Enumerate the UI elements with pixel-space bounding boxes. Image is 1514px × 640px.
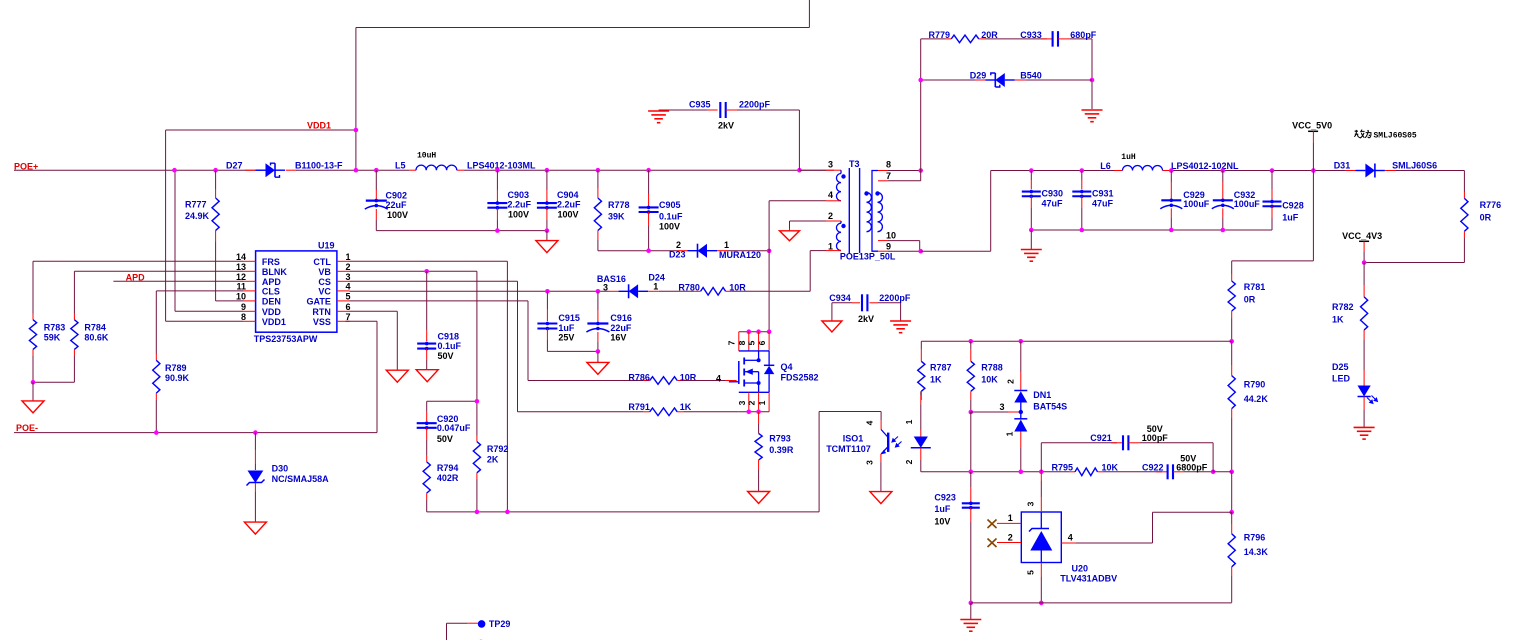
wire CTL bottom rail to ISO1 — [427, 511, 819, 513]
wire ISO1 collector loop — [818, 412, 820, 512]
svg-text:BAS16: BAS16 — [597, 274, 626, 284]
capacitor C928 1uF — [1271, 171, 1273, 190]
resistor R780 10R — [695, 290, 701, 292]
wire R783/R784 bottom join — [33, 381, 74, 383]
svg-text:TP29: TP29 — [489, 619, 511, 629]
node R781 bottom junction — [1229, 339, 1234, 344]
wire VDD vertical U19 pin9 to POE+ — [174, 170, 176, 311]
svg-text:0.39R: 0.39R — [769, 445, 794, 455]
svg-text:9: 9 — [886, 241, 891, 251]
test point TP29 — [447, 622, 468, 624]
svg-text:0R: 0R — [1244, 295, 1256, 305]
wire POE+ rail right of L5 — [464, 169, 834, 171]
svg-text:POE13P_50L: POE13P_50L — [840, 251, 896, 261]
wire VDD1 to U19 pin8 vertical — [165, 130, 167, 321]
svg-text:0.1uF: 0.1uF — [659, 212, 683, 222]
svg-text:FRS: FRS — [262, 257, 280, 267]
svg-text:D23: D23 — [669, 250, 686, 260]
wire secondary rail to output — [921, 250, 991, 252]
svg-text:1uF: 1uF — [558, 323, 575, 333]
svg-text:90.9K: 90.9K — [165, 373, 190, 383]
svg-text:2200pF: 2200pF — [739, 100, 771, 110]
diode DN1 BAT54S — [1020, 341, 1022, 372]
node pin9/pin10 junction — [918, 249, 923, 254]
svg-text:R781: R781 — [1244, 282, 1266, 292]
resistor R793 0.39R — [758, 412, 760, 424]
svg-text:R792: R792 — [487, 444, 509, 454]
U19 pin 13 BLNK — [243, 270, 256, 272]
wire R776 bottom to VCC_4V3 — [1364, 262, 1464, 264]
node U20 pin5 junction — [1039, 601, 1044, 606]
T3 secondary winding left — [867, 193, 872, 232]
node C928 junction — [1270, 168, 1275, 173]
wire C935 to POE+ rail — [798, 110, 800, 170]
svg-text:ISO1: ISO1 — [843, 433, 864, 443]
svg-text:1uF: 1uF — [1282, 212, 1299, 222]
svg-text:22uF: 22uF — [386, 200, 408, 210]
svg-text:2: 2 — [1008, 533, 1013, 543]
svg-text:C923: C923 — [934, 493, 956, 503]
ground under R793 — [748, 492, 770, 504]
svg-text:BLNK: BLNK — [262, 267, 287, 277]
svg-text:R793: R793 — [769, 433, 791, 443]
wire column R790-R796 — [1231, 472, 1233, 512]
svg-text:22uF: 22uF — [610, 323, 632, 333]
svg-text:SMLJ60S05: SMLJ60S05 — [1374, 131, 1417, 140]
ground under C904 — [546, 231, 548, 241]
svg-text:50V: 50V — [1180, 453, 1196, 463]
capacitor C921 100pF 50V — [1040, 443, 1042, 472]
svg-text:DEN: DEN — [262, 297, 281, 307]
svg-text:R776: R776 — [1480, 200, 1502, 210]
svg-text:R782: R782 — [1332, 302, 1354, 312]
wire U20 pin4 to divider — [1152, 512, 1154, 543]
svg-text:6800pF: 6800pF — [1176, 462, 1208, 472]
U19 pin 14 FRS — [243, 260, 256, 262]
node C905 junction — [646, 168, 651, 173]
svg-text:100V: 100V — [659, 221, 680, 231]
svg-text:10K: 10K — [981, 375, 998, 385]
node VDD1 junction — [354, 128, 359, 133]
svg-text:24.9K: 24.9K — [185, 211, 210, 221]
inductor L6 1uH LPS4012-102NL — [1114, 170, 1123, 172]
diode D27 B1100-13-F — [245, 169, 255, 171]
node Q4 source junctions — [747, 410, 752, 415]
node POE- D30 junction — [253, 430, 258, 435]
node VDD1/rail junction — [354, 168, 359, 173]
capacitor C932 100uF — [1222, 171, 1224, 183]
svg-text:10uH: 10uH — [417, 152, 436, 161]
svg-text:10K: 10K — [1102, 462, 1119, 472]
wire C915/C916 bottom — [547, 350, 598, 352]
svg-text:1K: 1K — [930, 375, 942, 385]
svg-text:SMLJ60S6: SMLJ60S6 — [1392, 160, 1437, 170]
svg-text:14.3K: 14.3K — [1244, 547, 1269, 557]
wire VCC_5V0 down to R781 row — [1312, 171, 1314, 261]
capacitor C935 2200pF 2kV — [659, 109, 716, 111]
wire C933 right down — [1091, 39, 1093, 109]
svg-text:R780: R780 — [678, 283, 700, 293]
wire R787 column top — [920, 341, 922, 349]
wire GATE pin5 — [350, 300, 529, 302]
wire VB pin2 — [350, 270, 477, 272]
capacitor C915 1uF 25V — [546, 291, 548, 309]
svg-text:D30: D30 — [272, 464, 289, 474]
wire D27 cathode to L5 — [296, 169, 409, 171]
svg-text:4: 4 — [1068, 533, 1073, 543]
svg-text:5: 5 — [346, 292, 351, 302]
svg-text:C916: C916 — [610, 313, 632, 323]
wire VDD pin9 — [175, 310, 243, 312]
svg-text:RTN: RTN — [312, 307, 331, 317]
svg-text:C931: C931 — [1092, 189, 1114, 199]
svg-text:U19: U19 — [318, 240, 335, 250]
wire GATE to R786 — [528, 380, 644, 382]
svg-text:3: 3 — [346, 272, 351, 282]
svg-text:U20: U20 — [1072, 564, 1089, 574]
svg-text:D27: D27 — [226, 161, 243, 171]
wire D24 to R780 — [659, 290, 695, 292]
svg-text:6: 6 — [346, 302, 351, 312]
ground under ISO1 — [870, 492, 892, 504]
wire CS pin3 — [350, 280, 518, 282]
node R778 junction — [596, 168, 601, 173]
U19 pin 1 CTL — [337, 260, 350, 262]
svg-text:2.2uF: 2.2uF — [557, 200, 581, 210]
node D29/C933 junction — [1090, 78, 1095, 83]
svg-text:C921: C921 — [1090, 433, 1112, 443]
node POE+ / VDD junction — [172, 168, 177, 173]
svg-text:C922: C922 — [1142, 462, 1164, 472]
U20 pin 2 no-connect — [997, 542, 1021, 544]
ground RTN — [386, 370, 408, 382]
T3 secondary winding right — [878, 193, 883, 232]
svg-text:59K: 59K — [44, 333, 61, 343]
node DN1 top junction — [1019, 339, 1024, 344]
svg-text:R795: R795 — [1052, 462, 1074, 472]
svg-text:R779: R779 — [929, 30, 951, 40]
svg-text:39K: 39K — [608, 212, 625, 222]
wire TP29 drop — [446, 623, 448, 640]
svg-text:C902: C902 — [386, 191, 408, 201]
svg-text:C905: C905 — [659, 200, 681, 210]
resistor R795 10K — [1069, 471, 1075, 473]
node C930 junction — [1029, 168, 1034, 173]
svg-text:4: 4 — [865, 420, 875, 425]
wire VB vertical — [476, 271, 478, 435]
svg-text:1uF: 1uF — [934, 504, 951, 514]
svg-text:2kV: 2kV — [858, 314, 874, 324]
resistor R794 402R — [426, 440, 428, 455]
node C918 tap junction — [424, 269, 429, 274]
svg-text:1: 1 — [828, 241, 833, 251]
node C929 junction — [1169, 168, 1174, 173]
resistor R781 0R — [1231, 261, 1233, 274]
svg-text:C930: C930 — [1042, 189, 1064, 199]
svg-text:2kV: 2kV — [718, 121, 734, 131]
svg-text:R784: R784 — [84, 323, 106, 333]
ISO1 light arrows — [892, 437, 902, 448]
U20 pin 5 bottom — [1040, 563, 1042, 578]
svg-text:D31: D31 — [1334, 160, 1351, 170]
svg-text:1uH: 1uH — [1121, 153, 1136, 162]
diode D31 SMLJ60S6 — [1345, 170, 1355, 172]
capacitor C934 2200pF 2kV — [832, 302, 852, 304]
T3 pin 2 — [826, 220, 841, 222]
svg-text:TPS23753APW: TPS23753APW — [254, 334, 318, 344]
wire FRS pin14 to R783 — [33, 260, 243, 262]
svg-text:B1100-13-F: B1100-13-F — [295, 161, 343, 171]
resistor R788 10K — [970, 341, 972, 349]
wire LED cathode rail — [921, 471, 1069, 473]
svg-text:5: 5 — [747, 340, 757, 345]
wire bottom return rail — [971, 602, 1232, 604]
wire DEN pin10 — [216, 300, 243, 302]
svg-text:VDD1: VDD1 — [262, 317, 286, 327]
svg-text:VB: VB — [318, 267, 331, 277]
svg-text:14: 14 — [236, 252, 246, 262]
node R792 top junction — [475, 399, 480, 404]
node U20 fb junction — [1229, 510, 1234, 515]
capacitor C923 1uF 10V — [970, 472, 972, 487]
inductor L5 10uH LPS4012-103ML — [409, 169, 416, 171]
svg-text:7: 7 — [727, 340, 737, 345]
svg-text:7: 7 — [886, 171, 891, 181]
svg-text:CS: CS — [318, 277, 331, 287]
U19 pin 12 APD — [243, 280, 256, 282]
svg-text:R783: R783 — [44, 323, 66, 333]
node Q4 drain junctions — [747, 329, 752, 334]
svg-text:LPS4012-102NL: LPS4012-102NL — [1171, 161, 1239, 171]
wire POE+ rail left — [14, 169, 263, 171]
svg-text:2200pF: 2200pF — [879, 293, 911, 303]
wire C934 right down — [900, 303, 902, 321]
svg-text:TLV431ADBV: TLV431ADBV — [1060, 573, 1117, 583]
svg-text:2: 2 — [1006, 379, 1016, 384]
capacitor C930 47uF — [1030, 171, 1032, 181]
wire CS to R791 — [518, 411, 644, 413]
svg-text:C935: C935 — [689, 100, 711, 110]
node C921 right junction — [1211, 470, 1216, 475]
T3 pin 9 — [878, 250, 888, 252]
U19 pin 8 VDD1 — [243, 320, 256, 322]
ISO1 LED branch — [920, 395, 922, 404]
svg-text:100pF: 100pF — [1142, 433, 1169, 443]
svg-text:2: 2 — [904, 459, 914, 464]
ground under C916 — [597, 351, 599, 362]
node C931 junction — [1080, 168, 1085, 173]
diode D23 MURA120 — [677, 250, 688, 252]
ground triangle C934 left — [822, 321, 842, 332]
svg-text:3: 3 — [1026, 501, 1036, 506]
capacitor C933 680pF — [985, 38, 1047, 40]
svg-text:7: 7 — [346, 312, 351, 322]
svg-text:BAT54S: BAT54S — [1033, 402, 1067, 412]
svg-text:B540: B540 — [1020, 70, 1042, 80]
svg-text:C904: C904 — [557, 190, 579, 200]
svg-text:3: 3 — [1000, 402, 1005, 412]
wire VC pin4 line — [350, 290, 609, 292]
text note SMLJ60S05 — [0, 0, 1, 1]
svg-text:100V: 100V — [508, 210, 529, 220]
svg-text:25V: 25V — [558, 333, 574, 343]
capacitor C922 6800pF 50V — [1104, 471, 1163, 473]
wire BLNK pin13 to R784 — [74, 270, 243, 272]
ground under D25 — [1354, 426, 1375, 428]
T3 pin 10 — [878, 240, 888, 242]
wire POE- rail — [14, 432, 377, 434]
ground under C930 — [1030, 230, 1032, 250]
svg-text:DN1: DN1 — [1033, 390, 1051, 400]
node C904 junction — [545, 168, 550, 173]
svg-text:50V: 50V — [1147, 424, 1163, 434]
wire top exit vertical — [808, 0, 810, 28]
wire APD pin12 — [113, 280, 243, 282]
node R790 bottom junction — [1229, 470, 1234, 475]
wire ISO1 emitter to ground — [880, 462, 882, 492]
node D29 left junction — [918, 78, 923, 83]
resistor R776 0R — [1463, 192, 1465, 198]
svg-text:100uF: 100uF — [1234, 199, 1261, 209]
svg-text:R789: R789 — [165, 363, 187, 373]
node pin8 junction — [918, 168, 923, 173]
Q4 source rail — [739, 411, 769, 413]
wire feedback top rail — [921, 340, 1231, 342]
T3 pin 3 — [799, 169, 826, 171]
svg-text:MURA120: MURA120 — [719, 250, 761, 260]
svg-text:R788: R788 — [981, 363, 1003, 373]
diode D29 B540 — [921, 79, 975, 81]
svg-text:1: 1 — [653, 282, 658, 292]
node R792 bottom junction — [475, 510, 480, 515]
Q4 drain rail — [739, 331, 769, 333]
T3 core — [848, 168, 850, 253]
svg-text:2: 2 — [747, 400, 757, 405]
node C935 branch junction — [797, 168, 802, 173]
node R788 column junction — [969, 470, 974, 475]
wire to R790 column — [1213, 471, 1232, 473]
svg-text:L6: L6 — [1100, 161, 1111, 171]
U19 pin 10 DEN — [243, 300, 256, 302]
svg-text:C903: C903 — [508, 190, 530, 200]
wire VDD1 top loop horizontal — [356, 27, 810, 29]
T3 secondary bracket — [872, 171, 878, 252]
svg-text:R777: R777 — [185, 200, 207, 210]
wire rail after L6 — [1170, 170, 1345, 172]
svg-text:44.2K: 44.2K — [1244, 394, 1269, 404]
svg-text:1: 1 — [1008, 513, 1013, 523]
wire R786 to Q4 gate — [683, 380, 725, 382]
wire VDD1 pin8 — [166, 320, 243, 322]
capacitor C918 0.1uF 50V — [426, 271, 428, 330]
node R788 top junction — [969, 339, 974, 344]
wire D31 to R776 — [1395, 170, 1464, 172]
node CTL vertical junction — [505, 510, 510, 515]
svg-text:CLS: CLS — [262, 287, 280, 297]
capacitor C929 100uF — [1170, 171, 1172, 183]
wire pin2 to ground — [789, 221, 791, 228]
svg-text:0R: 0R — [1480, 213, 1492, 223]
svg-text:680pF: 680pF — [1070, 30, 1097, 40]
svg-text:POE-: POE- — [16, 423, 38, 433]
svg-text:0.047uF: 0.047uF — [437, 423, 471, 433]
node C915 junction — [545, 289, 550, 294]
T3 pin 1 — [826, 250, 841, 252]
svg-text:2: 2 — [828, 211, 833, 221]
svg-text:100uF: 100uF — [1183, 199, 1210, 209]
node bottom rail junctions — [1080, 228, 1085, 233]
node C916 junction — [596, 289, 601, 294]
svg-text:VDD: VDD — [262, 307, 282, 317]
svg-text:LPS4012-103ML: LPS4012-103ML — [467, 160, 536, 170]
svg-text:10: 10 — [236, 292, 246, 302]
svg-text:1: 1 — [1005, 431, 1015, 436]
svg-text:1K: 1K — [680, 402, 692, 412]
resistor R786 10R — [644, 380, 650, 382]
IC U19 TPS23753APW body — [256, 251, 337, 332]
diode D24 BAS16 — [609, 290, 619, 292]
svg-text:3: 3 — [828, 159, 833, 169]
text note Chinese gai-wei glyphs — [1354, 130, 1371, 138]
svg-text:3: 3 — [865, 460, 875, 465]
node VCC_5V0 junction — [1311, 168, 1316, 173]
node C903 junction — [495, 168, 500, 173]
svg-text:12: 12 — [236, 272, 246, 282]
svg-text:6: 6 — [757, 340, 767, 345]
node C932 junction — [1221, 168, 1226, 173]
svg-text:C928: C928 — [1282, 200, 1304, 210]
wire VDD1 horizontal — [166, 129, 356, 131]
svg-text:NC/SMAJ58A: NC/SMAJ58A — [272, 474, 330, 484]
svg-text:100V: 100V — [387, 210, 408, 220]
node C904 bottom junction — [545, 228, 550, 233]
capacitor C903 2.2uF 100V — [496, 170, 498, 190]
wire R788 down to R795 node — [970, 412, 972, 472]
svg-text:VSS: VSS — [313, 317, 331, 327]
svg-text:VDD1: VDD1 — [307, 121, 331, 131]
svg-text:20R: 20R — [981, 30, 998, 40]
capacitor C920 0.047uF 50V — [426, 401, 428, 411]
svg-text:R791: R791 — [628, 402, 650, 412]
node R783 bottom junction — [31, 380, 36, 385]
Q4 drain pin stubs 7 8 5 6 — [738, 332, 740, 351]
node C905 bottom junction — [646, 248, 651, 253]
svg-text:10: 10 — [886, 230, 896, 240]
resistor R787 1K — [920, 349, 922, 361]
ground bars C934 right — [890, 320, 911, 322]
svg-text:80.6K: 80.6K — [84, 333, 109, 343]
svg-text:16V: 16V — [610, 333, 626, 343]
wire C934 left down — [831, 303, 833, 321]
node D23/pin4 junction — [767, 249, 772, 254]
svg-text:1: 1 — [757, 400, 767, 405]
resistor R779 20R — [921, 38, 945, 40]
wire DN1 pin 3 link — [971, 411, 1008, 413]
ISO1 phototransistor — [887, 433, 889, 452]
T3 pin 8 — [878, 170, 888, 172]
wire CTL pin1 — [350, 260, 508, 262]
svg-text:FDS2582: FDS2582 — [781, 372, 819, 382]
svg-text:CTL: CTL — [313, 257, 331, 267]
svg-text:VCC_5V0: VCC_5V0 — [1292, 121, 1332, 131]
U19 pin 5 GATE — [337, 300, 350, 302]
ground under R783/R784 — [32, 382, 34, 401]
node VCC_4V3 junction — [1362, 260, 1367, 265]
resistor R792 2K — [476, 436, 478, 442]
svg-text:4: 4 — [828, 190, 833, 200]
wire CLS pin11 to R789 — [156, 290, 243, 292]
svg-text:1: 1 — [724, 240, 729, 250]
